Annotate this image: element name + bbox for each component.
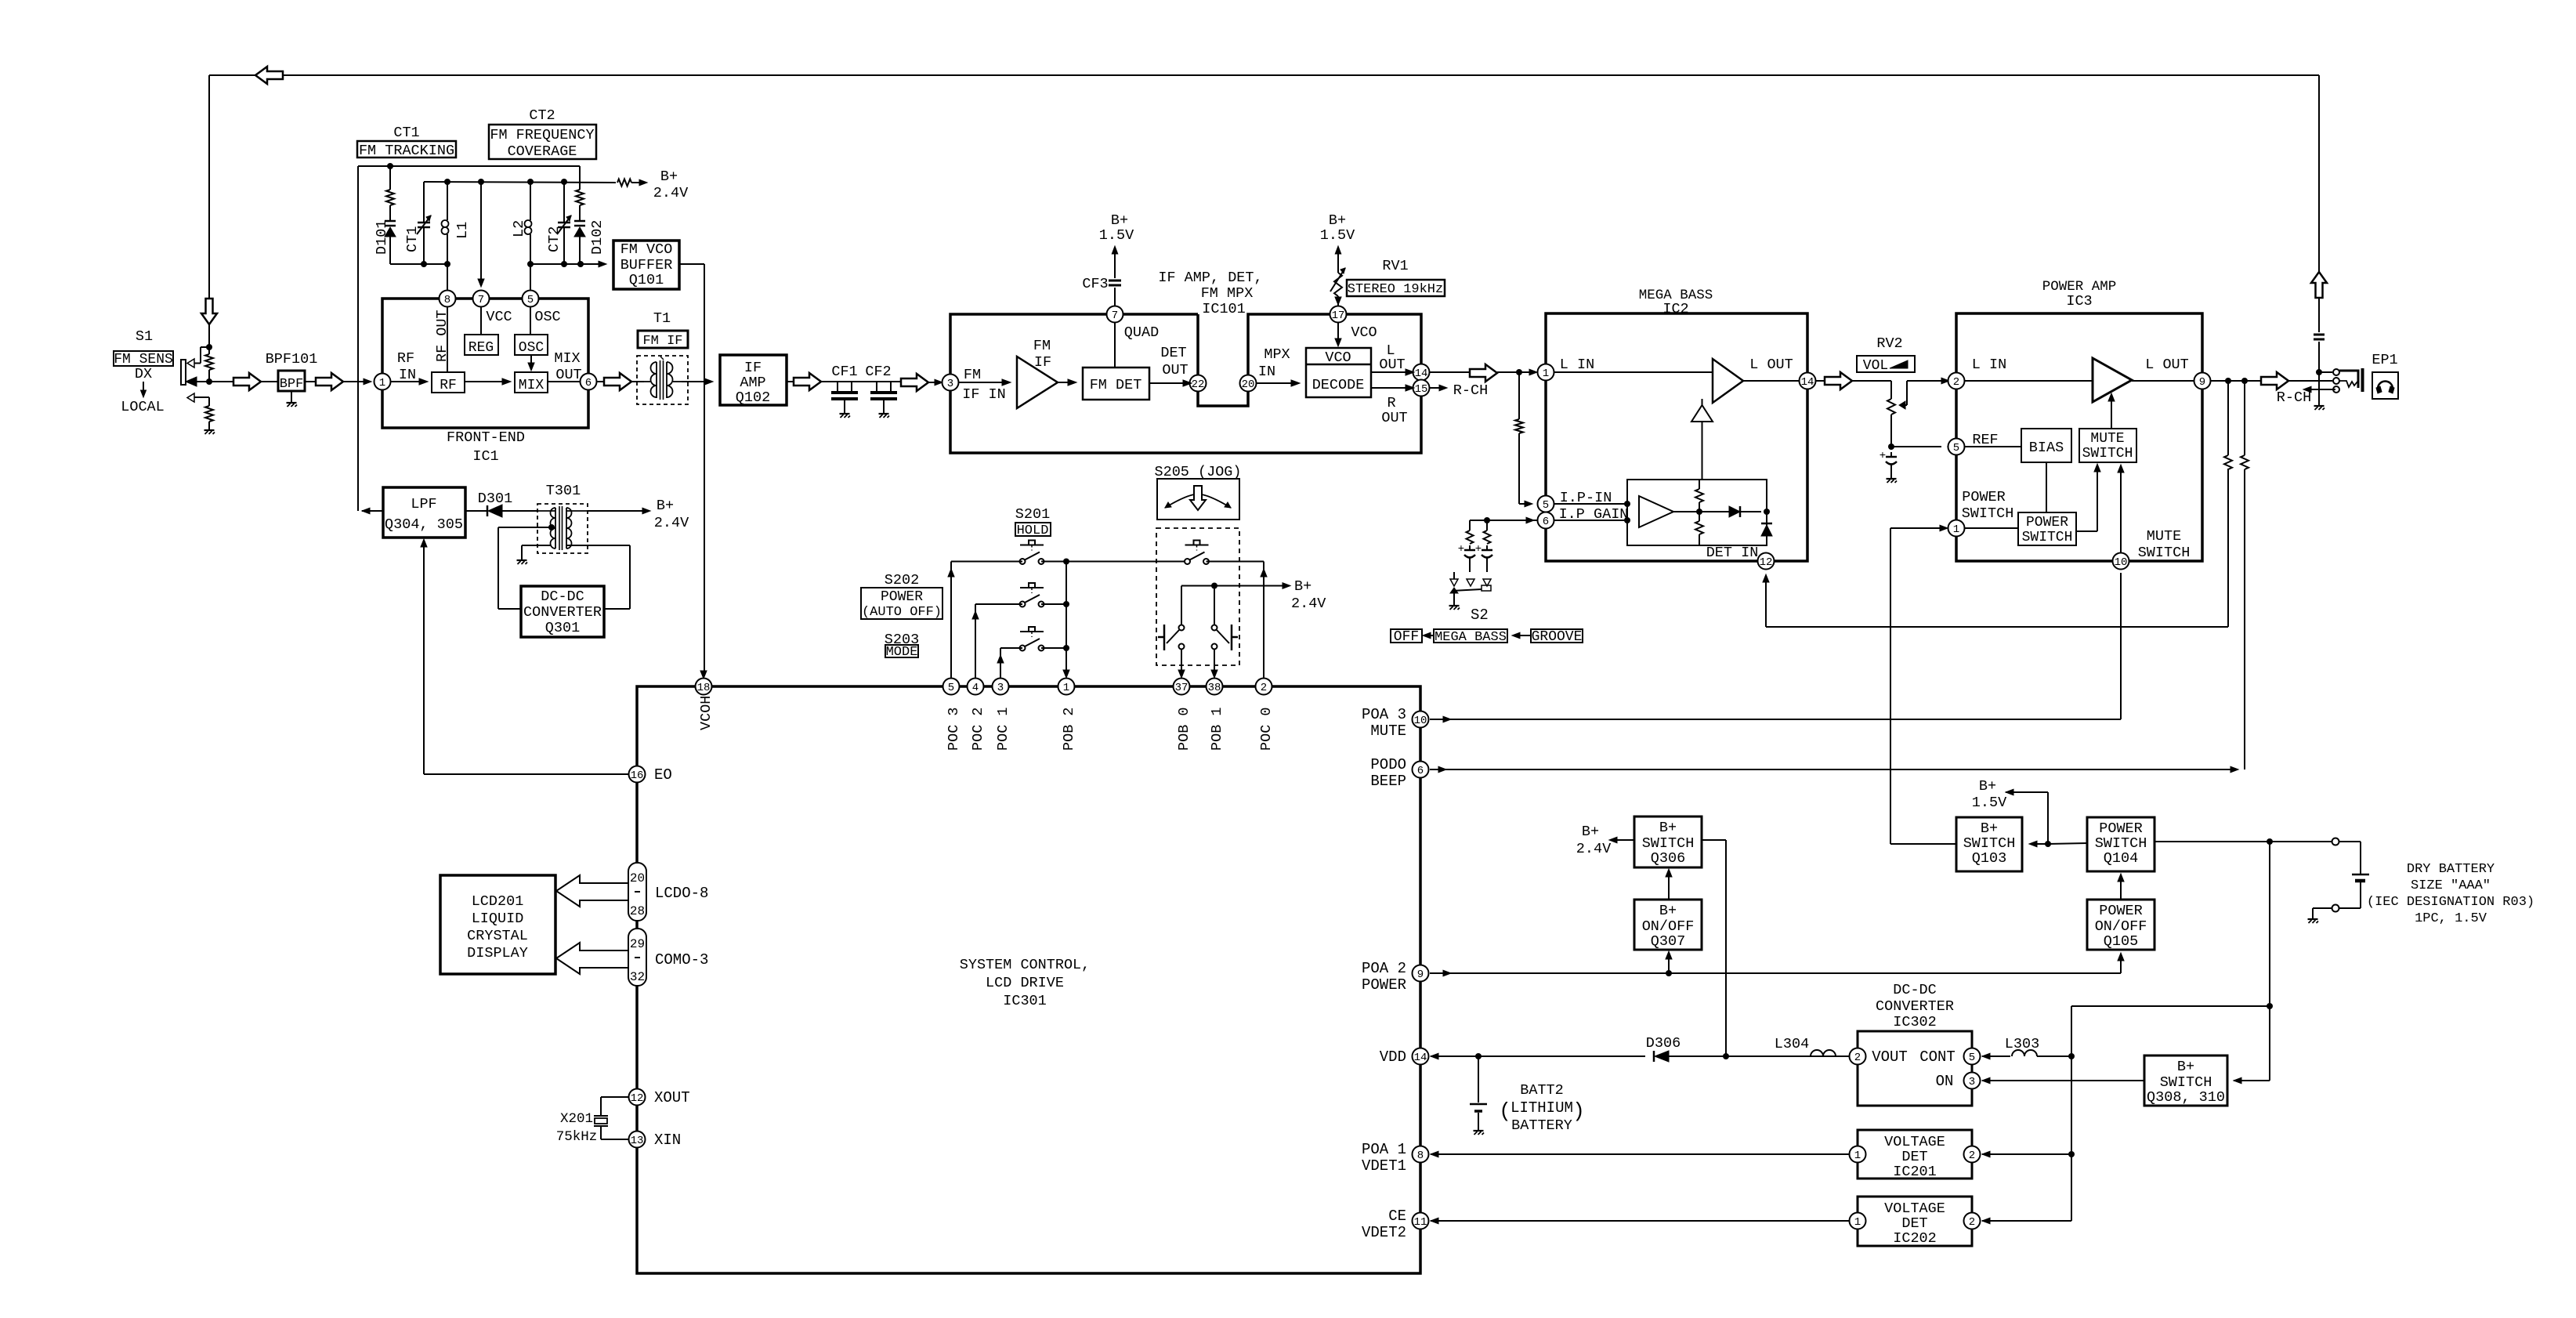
wire q103 B+ arrow [2006, 789, 2013, 795]
node rv2 bottom [1888, 444, 1894, 450]
wire cont-l303 [1982, 1053, 1990, 1059]
potentiometer RV1 [1337, 296, 1339, 306]
svg-text:DISPLAY: DISPLAY [467, 945, 528, 961]
wire antenna vertical [208, 75, 210, 299]
svg-text:OFF: OFF [1394, 629, 1419, 645]
pin 5 IC3 [1948, 439, 1965, 455]
svg-text:IF: IF [744, 360, 762, 376]
svg-text:37: 37 [1175, 682, 1189, 694]
capacitor CF3 [1114, 288, 1116, 306]
svg-text:BPF101: BPF101 [266, 351, 318, 368]
svg-text:2: 2 [1261, 682, 1267, 694]
wire jog B+ tap [1181, 585, 1284, 587]
wire t301 gnd leg [522, 545, 551, 546]
svg-text:LIQUID: LIQUID [472, 911, 524, 927]
pin 2 IC302 [1850, 1048, 1866, 1065]
wire amp-pin14 ic2 [1743, 380, 1799, 382]
svg-text:D101: D101 [374, 220, 390, 255]
svg-text:14: 14 [1414, 1052, 1427, 1064]
wire pin2-amp [1965, 380, 2093, 382]
svg-text:CONVERTER: CONVERTER [1876, 998, 1954, 1015]
wire Q102 out [787, 381, 794, 382]
pin 3 IC302 [1964, 1073, 1981, 1089]
resistor out a [2227, 381, 2229, 455]
svg-text:10: 10 [1414, 715, 1427, 727]
wire bias-powerswitch [2046, 462, 2047, 512]
svg-text:SIZE "AAA": SIZE "AAA" [2411, 878, 2491, 893]
label HOLD box [1015, 523, 1051, 536]
svg-text:POB 1: POB 1 [1209, 707, 1225, 751]
svg-text:2: 2 [1969, 1150, 1975, 1162]
svg-text:LCD201: LCD201 [472, 893, 524, 910]
block Q101 FM VCO BUFFER [613, 241, 679, 289]
wire decode-pin15 [1371, 387, 1407, 389]
IC U-IC101 outline [950, 314, 1198, 382]
pin 8 IC301 [1413, 1146, 1429, 1163]
svg-text:FM IF: FM IF [642, 334, 682, 349]
svg-text:FM FREQUENCY: FM FREQUENCY [490, 127, 594, 143]
ground BATT2 [1474, 1130, 1484, 1132]
wire ic2-out [1816, 380, 1825, 382]
wire det in run [1766, 626, 2228, 628]
svg-text:6: 6 [585, 377, 592, 389]
IC U-IC1 FRONT-END box [382, 299, 588, 428]
svg-text:L303: L303 [2005, 1036, 2039, 1052]
svg-text:Q105: Q105 [2104, 933, 2138, 950]
block VCO DECODE [1306, 348, 1371, 397]
arrow signal 8 [2261, 372, 2288, 389]
wire T1 to Q102 [682, 381, 706, 382]
svg-text:BEEP: BEEP [1370, 773, 1406, 790]
wire q306-vdd [1702, 839, 1726, 841]
svg-text:Q103: Q103 [1972, 850, 2006, 867]
svg-text:29: 29 [630, 937, 645, 951]
svg-text:POWER: POWER [2026, 515, 2068, 530]
label FM SENS box [114, 351, 173, 366]
resistor B+ feed [617, 179, 631, 186]
wire arrow to BPF [261, 381, 278, 382]
node L1 top [444, 179, 450, 185]
block Q105 POWER ON/OFF [2087, 900, 2155, 950]
svg-text:DECODE: DECODE [1312, 377, 1365, 393]
pin 20 IC101 [1240, 375, 1257, 392]
svg-text:DC-DC: DC-DC [541, 588, 584, 605]
svg-text:(IEC DESIGNATION R03): (IEC DESIGNATION R03) [2367, 895, 2534, 910]
svg-text:SYSTEM CONTROL,: SYSTEM CONTROL, [960, 957, 1091, 973]
svg-text:2.4V: 2.4V [654, 515, 689, 531]
svg-text:22: 22 [1192, 378, 1205, 391]
svg-text:ON/OFF: ON/OFF [2095, 918, 2147, 935]
svg-text:D102: D102 [589, 220, 606, 255]
svg-text:5: 5 [1953, 442, 1959, 454]
pin 5 IC301 [943, 679, 960, 695]
svg-text:L2: L2 [511, 220, 527, 237]
svg-text:MUTE: MUTE [2147, 528, 2181, 545]
label MEGA BASS box [1434, 629, 1507, 643]
node batt2 tap [1475, 1053, 1482, 1059]
svg-text:MUTE: MUTE [2090, 431, 2124, 447]
filter CF2 [876, 382, 877, 391]
svg-text:T301: T301 [546, 483, 581, 499]
contact jack tip [2333, 369, 2339, 375]
pin 7 IC1 [473, 291, 490, 307]
contact jack ring [2333, 378, 2339, 384]
ground T301 [517, 559, 527, 561]
node CT1 bottom [421, 261, 427, 267]
arrow signal 5 [901, 374, 928, 391]
wire pin17-VCO [1337, 323, 1339, 342]
pin 2 IC202 [1964, 1213, 1981, 1229]
pin 38 IC301 [1207, 679, 1223, 695]
svg-text:DET: DET [1901, 1215, 1927, 1232]
svg-text:20: 20 [1242, 378, 1255, 391]
svg-text:D306: D306 [1646, 1035, 1681, 1052]
block BIAS [2021, 429, 2071, 462]
capacitor BATT2 [1478, 1056, 1479, 1103]
svg-text:12: 12 [1760, 556, 1773, 569]
pin 20-28 IC301 [628, 863, 646, 921]
IC U-IC2 box [1546, 313, 1807, 561]
pin 3 IC301 [993, 679, 1009, 695]
pin 5 IC302 [1964, 1048, 1981, 1065]
svg-text:1.5V: 1.5V [1320, 227, 1355, 244]
wire junction-q104 [2048, 843, 2087, 844]
svg-text:POWER: POWER [2099, 903, 2143, 919]
wire pin7-REG [480, 307, 482, 335]
pin 1 IC201 [1850, 1146, 1866, 1163]
pin 22 IC101 [1190, 375, 1207, 392]
pin 5 IC1 [523, 291, 539, 307]
wire ic202 sense [1982, 1218, 1990, 1224]
headphone EP1 [2372, 372, 2398, 399]
block Q301 DC-DC [521, 586, 604, 637]
svg-text:D301: D301 [478, 491, 512, 507]
block Q102 IF AMP [720, 355, 787, 405]
wire to IC2 pin5 [1519, 503, 1526, 505]
pin 11 IC301 [1413, 1213, 1429, 1229]
contact battery - [2332, 905, 2339, 912]
block LPF [383, 487, 465, 538]
svg-text:MUTE: MUTE [1370, 722, 1406, 740]
svg-text:COVERAGE: COVERAGE [508, 143, 577, 160]
wire boost-fb [1702, 422, 1703, 480]
svg-text:POB 0: POB 0 [1176, 707, 1192, 751]
contact battery + [2332, 838, 2339, 845]
svg-text:CF2: CF2 [865, 364, 891, 380]
wire pin6-fb [1554, 520, 1627, 521]
svg-text:IC1: IC1 [472, 448, 498, 465]
svg-text:VDET1: VDET1 [1362, 1157, 1406, 1175]
svg-text:EP1: EP1 [2372, 352, 2397, 368]
svg-text:20: 20 [630, 871, 645, 885]
node out res2 [2241, 378, 2248, 384]
svg-text:LOCAL: LOCAL [121, 399, 165, 415]
node out res1 [2225, 378, 2231, 384]
IC U-IC301 box [637, 686, 1420, 1273]
node s2 r2 top [1484, 517, 1490, 523]
svg-text:VOLTAGE: VOLTAGE [1884, 1200, 1945, 1217]
svg-text:15: 15 [1415, 383, 1428, 396]
wire pin8 riser [447, 264, 448, 290]
wire lpf feedback [423, 544, 425, 774]
pin 2 IC3 [1948, 373, 1965, 389]
wire pin5 riser [530, 264, 531, 290]
svg-text:S1: S1 [136, 328, 153, 345]
wire jack cap link [2318, 298, 2320, 332]
arrow top-left [255, 67, 283, 84]
svg-text:SWITCH: SWITCH [2138, 545, 2191, 561]
pin 2 IC201 [1964, 1146, 1981, 1163]
wire S1 DX contact [201, 346, 209, 348]
wire s202-junction [1041, 603, 1066, 605]
wire powerswitch-muteswitch [2076, 530, 2097, 532]
pin 9 IC3 [2194, 373, 2211, 389]
svg-text:PODO: PODO [1370, 756, 1406, 773]
svg-text:VOUT: VOUT [1872, 1048, 1908, 1066]
block MIX [515, 372, 548, 393]
svg-text:EO: EO [654, 766, 672, 784]
wire t301 right leg [566, 545, 588, 546]
block OSC [515, 335, 548, 355]
svg-text:VDD: VDD [1380, 1048, 1406, 1066]
diode fb vertical [1761, 525, 1772, 536]
node pob2 a [1063, 559, 1069, 565]
svg-text:VDET2: VDET2 [1362, 1224, 1406, 1241]
wire poc0 riser [1263, 562, 1264, 679]
amp IC2 bass boost [1691, 405, 1713, 422]
svg-text:R: R [1387, 395, 1395, 411]
arrow signal 7 [1825, 372, 1852, 389]
wire jack cap down [2318, 342, 2320, 405]
svg-text:IF: IF [1034, 354, 1051, 371]
block MUTE SWITCH [2079, 429, 2136, 462]
node jack [2316, 369, 2322, 375]
svg-text:Q301: Q301 [545, 620, 580, 636]
arrow signal 2 [316, 373, 343, 390]
resistor out b [2244, 381, 2245, 455]
svg-text:1PC, 1.5V: 1PC, 1.5V [2415, 911, 2487, 926]
svg-text:SWITCH: SWITCH [2082, 446, 2133, 462]
contact S2 a [1467, 579, 1474, 586]
svg-text:MPX: MPX [1264, 346, 1290, 363]
wire poc2 row [975, 603, 1022, 605]
svg-text:10: 10 [2115, 556, 2128, 569]
switch S205 jog cap [1157, 479, 1239, 520]
pin 10 IC301 [1413, 712, 1429, 728]
svg-text:R-CH: R-CH [2277, 389, 2311, 406]
svg-text:VCC: VCC [486, 309, 512, 325]
svg-text:3: 3 [997, 682, 1004, 694]
label FM TRACKING box [357, 141, 456, 158]
inductor L304 [1837, 1055, 1858, 1057]
svg-text:1: 1 [1854, 1216, 1861, 1229]
svg-text:75kHz: 75kHz [556, 1129, 598, 1145]
switch S1 common bar [181, 360, 186, 385]
pin 1 IC202 [1850, 1213, 1866, 1229]
wire q307 riser [1668, 956, 1670, 973]
label MODE box [885, 645, 918, 657]
wire mute run [1430, 719, 2121, 720]
svg-text:QUAD: QUAD [1124, 324, 1159, 341]
svg-text:+: + [1475, 543, 1482, 556]
arrow signal 1 [233, 373, 261, 390]
wire OSC-MIX [530, 355, 532, 365]
block POWER SWITCH [2018, 512, 2076, 545]
ground ref cap [1887, 478, 1897, 480]
pin 12 IC301 [629, 1089, 646, 1106]
wire to IC2 pin1 [1497, 371, 1531, 373]
arrow signal 3 [604, 373, 631, 390]
svg-text:5: 5 [1969, 1052, 1975, 1064]
svg-text:L OUT: L OUT [1749, 357, 1793, 373]
node L2 bottom [527, 261, 534, 267]
contact S2 b [1483, 579, 1491, 586]
pin 1 IC301 [1058, 679, 1075, 695]
ground BPF101 [287, 402, 297, 404]
filter CF1 [837, 382, 838, 391]
svg-text:FRONT-END: FRONT-END [447, 429, 525, 446]
wire FMDET-pin22 [1149, 382, 1185, 384]
transformer T1 [637, 356, 688, 404]
block Q103 B+ SWITCH [1956, 817, 2022, 871]
wire amp-FMDET [1058, 382, 1069, 383]
svg-text:OUT: OUT [1379, 357, 1405, 373]
svg-text:OUT: OUT [1162, 362, 1188, 378]
svg-text:Q304, 305: Q304, 305 [385, 516, 463, 533]
svg-text:1.5V: 1.5V [1099, 227, 1134, 244]
node CT2 top [561, 179, 567, 185]
svg-text:IF AMP, DET,: IF AMP, DET, [1158, 270, 1262, 286]
wire amp-pin9 [2132, 380, 2194, 382]
wire t301 B+ [588, 510, 644, 512]
svg-text:IF IN: IF IN [962, 386, 1006, 403]
wire pin9 out [2211, 380, 2261, 382]
svg-text:RV2: RV2 [1876, 335, 1902, 352]
svg-text:+: + [1880, 450, 1886, 462]
block REG [465, 335, 498, 355]
block FM DET [1083, 368, 1149, 400]
switch S202 POWER [1020, 587, 1044, 588]
svg-text:IN: IN [1258, 364, 1275, 380]
wire pin7-FMDET [1114, 323, 1116, 368]
svg-text:SWITCH: SWITCH [2160, 1074, 2212, 1091]
svg-text:POC 2: POC 2 [970, 707, 986, 751]
svg-text:18: 18 [697, 682, 711, 694]
svg-text:BUFFER: BUFFER [620, 257, 673, 273]
wire q308 right [2234, 1077, 2241, 1084]
svg-text:POC 0: POC 0 [1258, 707, 1275, 751]
svg-text:Q101: Q101 [629, 272, 664, 288]
wire ipamp-diode [1673, 511, 1729, 512]
wire row1-jog [1066, 561, 1188, 563]
wire VT vertical [357, 166, 359, 511]
svg-text:8: 8 [1417, 1150, 1424, 1162]
block Q308 B+ SWITCH [2144, 1055, 2227, 1106]
pin 17 IC101 [1330, 306, 1347, 323]
svg-text:S205 (JOG): S205 (JOG) [1154, 464, 1241, 480]
svg-text:16: 16 [631, 769, 644, 782]
svg-text:R-CH: R-CH [1453, 382, 1488, 399]
svg-text:S2: S2 [1471, 606, 1489, 624]
svg-text:DRY BATTERY: DRY BATTERY [2407, 862, 2495, 877]
switch S201 HOLD [1020, 545, 1044, 546]
wire q105-q104 [2120, 878, 2122, 900]
transformer T301 [537, 504, 588, 553]
wire q104-battery [2155, 841, 2332, 842]
ground battery [2308, 918, 2318, 920]
svg-text:POA 3: POA 3 [1362, 706, 1406, 723]
wire jack top feed [2318, 75, 2320, 272]
svg-text:MEGA BASS: MEGA BASS [1435, 630, 1507, 645]
label VOL box [1857, 356, 1915, 372]
resistor S2 b [1486, 520, 1488, 530]
svg-text:XOUT: XOUT [654, 1089, 690, 1106]
node D101 top [387, 163, 393, 169]
pin 37 IC301 [1174, 679, 1190, 695]
block IC302 [1858, 1031, 1972, 1106]
svg-text:COMO-3: COMO-3 [655, 951, 708, 969]
node ip resistor top [1516, 369, 1522, 375]
svg-text:VCO: VCO [1325, 349, 1351, 366]
pin 8 IC1 [440, 291, 456, 307]
svg-text:POC 1: POC 1 [995, 707, 1011, 751]
svg-text:X201: X201 [560, 1111, 593, 1127]
wire poc3 row [951, 561, 1022, 563]
svg-text:VOLTAGE: VOLTAGE [1884, 1134, 1945, 1150]
svg-text:1: 1 [1063, 682, 1069, 694]
svg-text:MIX: MIX [554, 350, 580, 367]
wire poc2 riser [975, 604, 976, 678]
wire muteswitch-amp [2111, 398, 2112, 429]
block IC201 VOLTAGE DET [1858, 1130, 1972, 1179]
svg-text:IC202: IC202 [1893, 1230, 1937, 1247]
svg-text:SWITCH: SWITCH [1642, 835, 1695, 852]
resistor S1 lower [205, 406, 213, 422]
capacitor CT2 branch [563, 182, 565, 215]
wire pin6-T1 [597, 381, 604, 382]
svg-text:9: 9 [2199, 376, 2205, 389]
wire S1 to BPF [197, 381, 233, 382]
svg-text:POB 2: POB 2 [1061, 707, 1077, 751]
svg-text:LCD DRIVE: LCD DRIVE [986, 975, 1064, 991]
svg-text:DET: DET [1160, 345, 1186, 361]
svg-text:28: 28 [630, 904, 645, 918]
wire RF-MIX [465, 381, 505, 382]
wire arrow to pin1 [343, 381, 364, 382]
block Q306 B+ SWITCH [1634, 817, 1702, 867]
svg-text:B+: B+ [1981, 820, 1998, 837]
svg-text:B+: B+ [1329, 212, 1346, 229]
svg-text:OSC: OSC [534, 309, 560, 325]
svg-text:B+: B+ [1659, 903, 1677, 919]
svg-text:L OUT: L OUT [2145, 357, 2189, 373]
ground jack [2314, 405, 2325, 407]
wire q103 in [2035, 843, 2048, 845]
bus COMO-3 arrow [556, 943, 629, 974]
pin 13 IC301 [629, 1132, 646, 1148]
arrow megabass-off [1427, 635, 1434, 636]
svg-text:CRYSTAL: CRYSTAL [467, 928, 528, 944]
wire S1 LOCAL contact [187, 393, 194, 402]
svg-text:L IN: L IN [1560, 357, 1594, 373]
wire pin14 out [1430, 371, 1470, 373]
wire s203-junction [1041, 647, 1066, 649]
svg-text:POWER: POWER [1362, 976, 1406, 994]
wire ic201 sense [1982, 1151, 1990, 1157]
svg-text:9: 9 [1417, 969, 1424, 981]
capacitor CT1 branch [423, 182, 425, 215]
wire top bus [209, 74, 2319, 76]
